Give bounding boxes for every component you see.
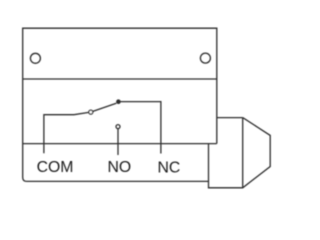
svg-text:COM: COM	[37, 159, 74, 176]
svg-text:NO: NO	[107, 159, 131, 176]
svg-text:NC: NC	[157, 159, 180, 176]
